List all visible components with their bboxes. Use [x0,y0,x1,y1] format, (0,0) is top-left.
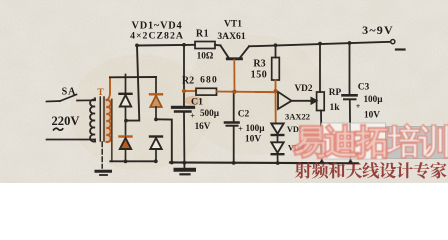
wire bottom rail [170,161,358,164]
watermark white box [322,123,386,159]
potentiometer RP [319,44,321,92]
svg-text:T: T [97,88,104,98]
svg-text:10V: 10V [364,111,380,121]
svg-text:+: + [238,125,243,134]
svg-text:RP: RP [329,88,342,98]
ground (main) [183,163,185,169]
wire rail to left-mid (DC-) [126,46,139,121]
wire secondary top lead [107,77,110,100]
svg-text:3~9V: 3~9V [362,23,394,37]
transformer T primary winding [90,99,95,141]
resistor R1 [195,42,215,49]
svg-text:VT1: VT1 [224,20,242,30]
svg-text:R2: R2 [182,76,194,87]
svg-text:220V: 220V [52,114,80,128]
wire bridge AC bottom line [110,160,155,162]
wire R3 to VD5 (orange) [275,80,277,123]
svg-text:C2: C2 [238,110,250,120]
svg-text:+: + [190,112,195,121]
output terminal minus [391,40,395,44]
capacitor C3 [349,43,351,94]
svg-text:R3: R3 [253,59,265,70]
watermark text 易迪拓培训 [294,125,448,158]
svg-text:C1: C1 [191,97,203,108]
wire top rail left [137,44,195,47]
wire C1 to R2 [184,90,196,92]
diode VD3 (bottom-left) [120,135,132,137]
wire top rail right [249,42,391,47]
wire right-mid to bottom rail (DC+) [156,119,172,162]
capacitor C1 [183,45,185,106]
wire VT1 base down [233,60,235,92]
wire bridge AC top line [110,76,156,78]
svg-text:3AX61: 3AX61 [217,31,245,42]
capacitor C2 [233,92,235,121]
diode VD4 [271,142,283,153]
diode VD2b (top-right) [155,77,157,94]
resistor R3 [275,45,277,57]
svg-text:500µ: 500µ [200,108,220,118]
wire 220V top lead [47,100,61,103]
svg-text:10V: 10V [245,135,262,145]
wire VT2 to VD2 [292,100,312,102]
svg-text:16V: 16V [195,121,211,131]
svg-text:1k: 1k [329,103,340,113]
svg-text:VD2: VD2 [294,84,312,94]
diode VD2 [311,97,317,104]
svg-text:3AX22: 3AX22 [285,112,310,122]
svg-text:R1: R1 [196,29,209,40]
wire 220V bottom lead [47,139,96,141]
svg-text:680: 680 [200,76,218,86]
wire R2 to VT2 [256,91,277,93]
svg-text:SA: SA [62,87,77,98]
transistor VT1 [221,46,230,59]
svg-text:C3: C3 [358,83,370,93]
watermark text 射频和天线设计专家 [295,162,447,179]
svg-text:100µ: 100µ [245,123,265,133]
svg-text:+: + [356,102,361,111]
resistor R2 [196,88,217,95]
node junctions [124,41,353,165]
svg-text:10Ω: 10Ω [197,52,214,62]
svg-text:150: 150 [251,70,268,81]
watermark grey box [386,127,448,159]
label ~ [53,128,63,130]
diode VD5 [271,124,283,134]
switch SA [60,95,95,102]
transformer T secondary winding [107,100,111,142]
svg-text:4×2CZ82A: 4×2CZ82A [130,31,184,42]
ground (transformer core) [96,170,111,173]
diode VD1 (top-left) [125,75,127,94]
transistor VT2 3AX22 [278,92,292,109]
diode VD4b (bottom-right) [150,135,162,137]
wire secondary bottom lead [111,100,113,162]
transformer T core [99,97,101,141]
svg-text:100µ: 100µ [363,94,383,104]
